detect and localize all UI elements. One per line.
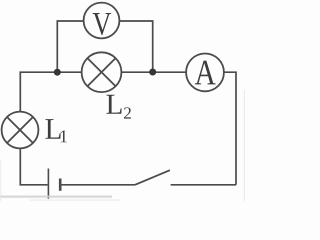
wire left branch: from lamp L1 up to top-left corner and right to junction 1	[20, 72, 57, 112]
wire junction 1 to lamp L2	[57, 71, 81, 73]
wire junction 2 to ammeter	[153, 71, 187, 73]
wire lamp L1 down to bottom-left corner and right to battery	[20, 148, 47, 185]
wire lamp L2 to junction 2	[121, 71, 152, 73]
scan artifact streaks (faint)	[0, 195, 112, 197]
label L2	[106, 95, 130, 119]
junction node 2	[149, 69, 156, 76]
junction node 1	[54, 69, 61, 76]
switch blade (open)	[135, 170, 170, 185]
lamp L1 circle with cross	[2, 112, 39, 149]
wire voltmeter branch right: voltmeter to junction 2	[119, 21, 152, 72]
voltmeter label V	[93, 13, 111, 35]
wire ammeter to top-right corner and down right side	[224, 72, 236, 185]
wire battery to switch pivot	[61, 184, 135, 186]
label L1	[45, 119, 66, 142]
battery cell long plate (+)	[47, 169, 49, 199]
lamp L2 circle with cross	[82, 52, 122, 92]
ammeter U2 circle	[186, 54, 224, 92]
battery cell short plate (-)	[59, 179, 62, 191]
ammeter label A	[195, 61, 216, 85]
wire voltmeter branch left: junction 1 up and right to voltmeter	[57, 21, 83, 72]
wire switch contact to bottom-right corner	[171, 184, 236, 186]
voltmeter U1 circle	[84, 3, 120, 39]
